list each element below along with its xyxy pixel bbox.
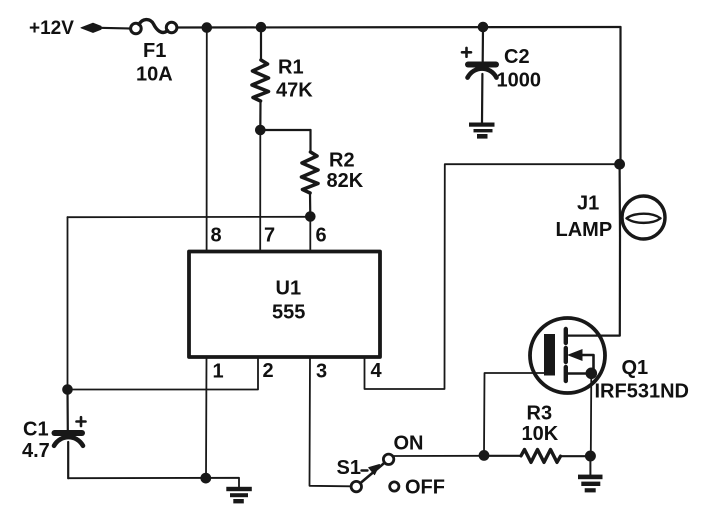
- wire pin6 node to left rail: [68, 216, 311, 218]
- wire pin 3 to switch: [310, 357, 351, 486]
- svg-text:R1: R1: [278, 57, 304, 79]
- svg-text:4: 4: [371, 360, 383, 382]
- wire pin 2 to C1 node: [68, 357, 259, 390]
- wire lamp to drain: [566, 236, 621, 336]
- +12V arrow: [81, 23, 101, 32]
- lamp J1: [622, 196, 665, 239]
- wire pin 1 to ground rail: [205, 357, 208, 478]
- svg-text:10A: 10A: [136, 64, 173, 86]
- wire top rail: [177, 26, 621, 29]
- node C1 top: [63, 385, 73, 395]
- svg-text:S1: S1: [337, 457, 361, 479]
- ground bottom-right stub: [589, 456, 591, 475]
- svg-text:7: 7: [264, 225, 275, 247]
- svg-text:82K: 82K: [327, 170, 364, 192]
- svg-text:J1: J1: [577, 193, 599, 215]
- svg-text:47K: 47K: [276, 80, 313, 102]
- wire ground rail bottom left: [68, 478, 239, 487]
- node pin1 / ground rail: [201, 473, 211, 483]
- capacitor C2: [462, 27, 497, 123]
- node R1 top: [256, 22, 266, 32]
- ground below C2: [469, 123, 495, 139]
- node C2 top: [478, 22, 488, 32]
- node R2 bottom / pin 6: [306, 212, 316, 222]
- node gate / R3 left: [479, 451, 489, 461]
- transistor Q1: [530, 318, 605, 393]
- svg-text:R2: R2: [329, 150, 355, 172]
- node fuse / pin 8 rail: [202, 23, 212, 33]
- fuse F1: [131, 20, 177, 34]
- resistor R1: [252, 27, 269, 130]
- wire source down: [590, 374, 593, 457]
- svg-text:10K: 10K: [522, 423, 559, 445]
- wire pin 7: [259, 130, 261, 252]
- svg-text:1000: 1000: [497, 70, 542, 92]
- wire pin 6: [309, 217, 311, 252]
- svg-text:LAMP: LAMP: [556, 219, 613, 241]
- wire right rail top: [619, 27, 621, 164]
- svg-text:6: 6: [316, 225, 327, 247]
- switch S1: [351, 454, 394, 492]
- svg-text:R3: R3: [527, 403, 553, 425]
- svg-text:1: 1: [213, 361, 224, 383]
- S1 pointer dash: [362, 469, 368, 471]
- IC U1 box: [189, 252, 380, 358]
- svg-text:ON: ON: [394, 433, 424, 455]
- ground bottom-left: [226, 487, 252, 504]
- ground bottom-right: [578, 475, 603, 493]
- wire ON contact to R3 node: [394, 455, 484, 457]
- wire R1 node to R2 top: [260, 129, 310, 131]
- wire +12V arrow to fuse: [99, 27, 130, 30]
- svg-text:OFF: OFF: [405, 477, 445, 499]
- svg-text:C2: C2: [504, 46, 530, 68]
- node R1 bottom / pin 7: [255, 125, 265, 135]
- svg-text:3: 3: [316, 361, 327, 383]
- switch OFF contact: [390, 482, 399, 491]
- svg-text:+12V: +12V: [29, 18, 74, 39]
- resistor R2: [302, 130, 319, 217]
- svg-text:2: 2: [263, 360, 274, 382]
- svg-text:C1: C1: [23, 419, 49, 441]
- capacitor C1: [54, 390, 86, 479]
- svg-text:4.7: 4.7: [22, 440, 50, 462]
- svg-text:8: 8: [211, 225, 222, 247]
- wire left rail down to C1 node: [67, 217, 69, 389]
- svg-text:555: 555: [272, 302, 305, 324]
- wire gate riser: [484, 373, 545, 455]
- wire node to lamp: [618, 164, 621, 236]
- node lamp / drain / pin4: [615, 159, 625, 169]
- resistor R3: [484, 450, 586, 463]
- svg-text:Q1: Q1: [622, 357, 649, 379]
- svg-text:IRF531ND: IRF531ND: [595, 381, 689, 403]
- wire pin 8 to +12V rail: [206, 28, 208, 252]
- svg-text:U1: U1: [276, 278, 302, 300]
- node R3 right / source / ground: [585, 451, 595, 461]
- svg-text:F1: F1: [143, 40, 166, 62]
- wire pin 4 loop to drain node: [365, 164, 620, 389]
